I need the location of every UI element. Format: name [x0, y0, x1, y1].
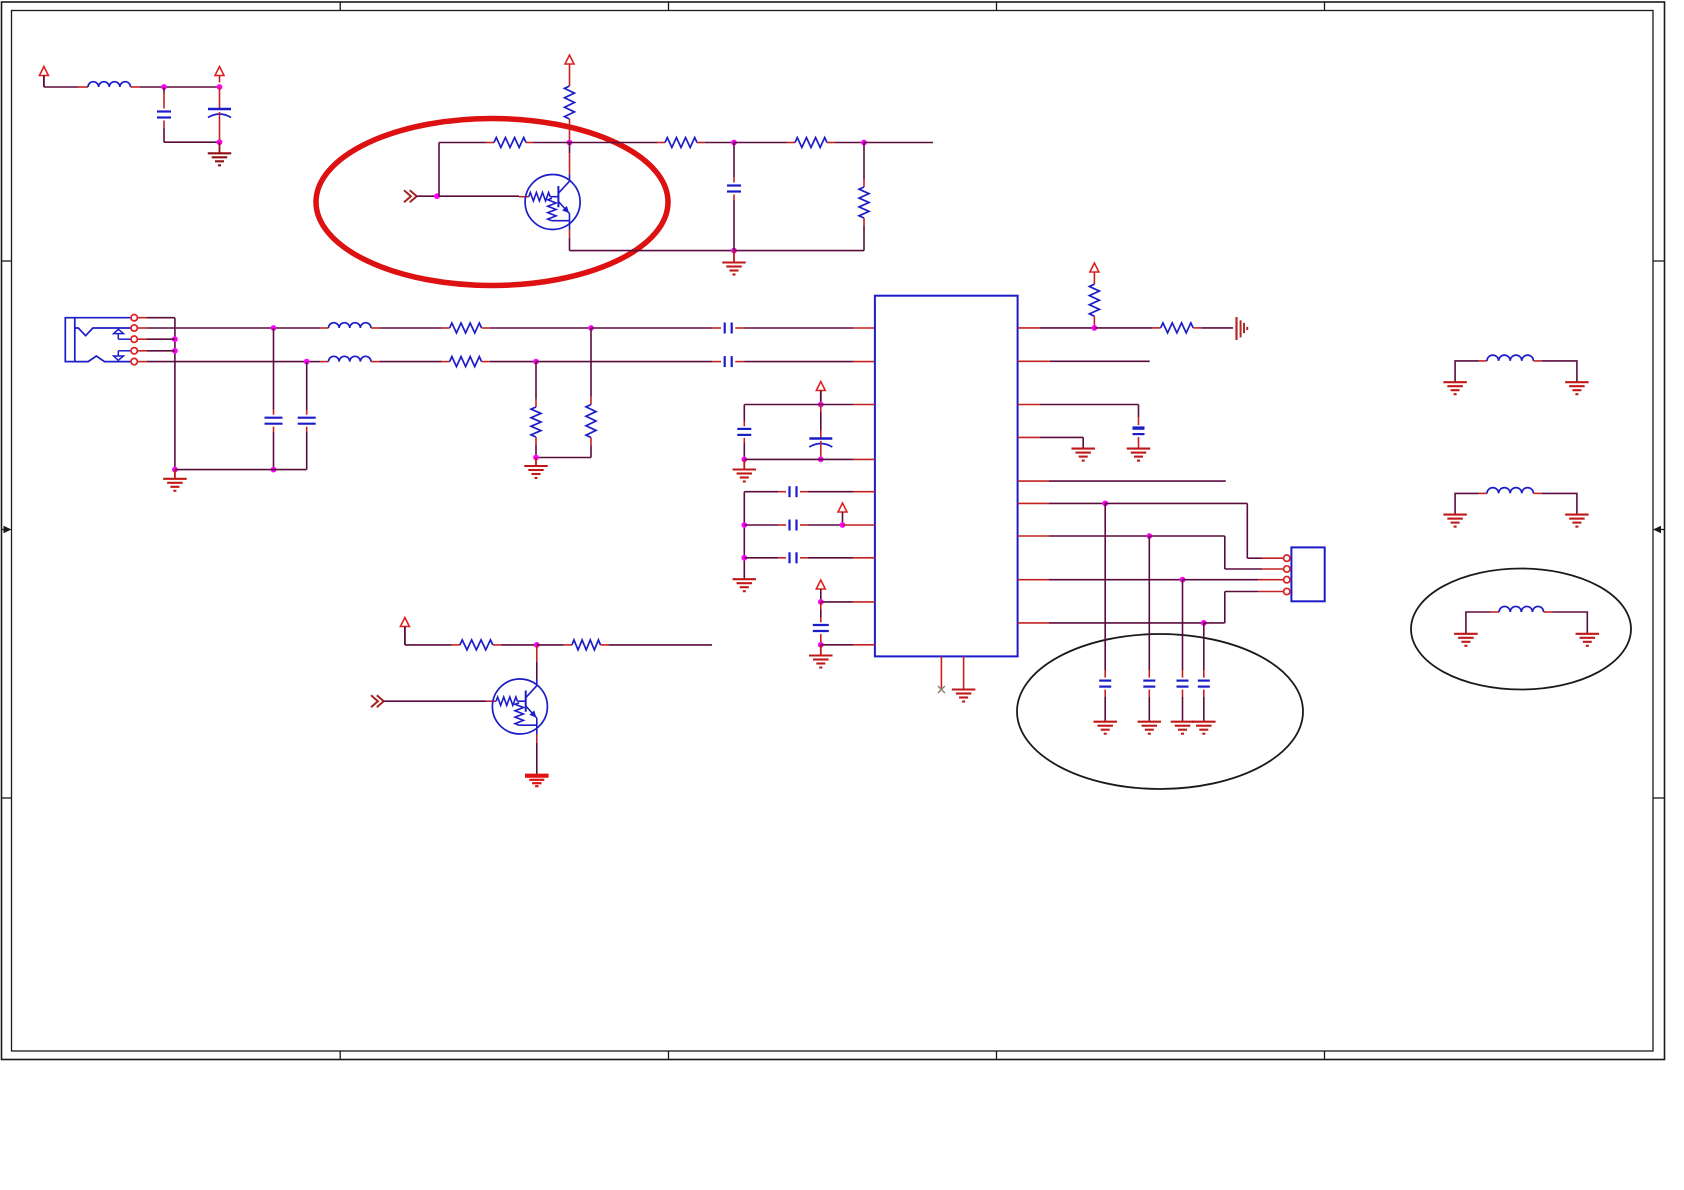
wire	[570, 230, 735, 251]
wire	[744, 458, 821, 460]
node D	[588, 325, 594, 331]
resistor R10	[531, 362, 541, 458]
node	[304, 359, 310, 365]
wire	[569, 143, 571, 175]
node E	[533, 359, 539, 365]
pin 1	[1284, 555, 1290, 561]
ground	[1454, 634, 1478, 646]
capacitor C9	[809, 405, 832, 460]
pin 2	[131, 325, 137, 331]
wire	[744, 557, 786, 559]
node B	[731, 140, 737, 146]
wire	[821, 644, 875, 646]
wire	[44, 86, 88, 88]
wire	[439, 142, 494, 144]
transistor Q1	[525, 175, 580, 230]
pin 1	[131, 315, 137, 321]
ground	[1192, 722, 1216, 734]
ground	[809, 645, 833, 668]
resistor R13	[460, 640, 493, 650]
wire	[1018, 327, 1095, 329]
node	[434, 193, 440, 199]
power flag VIN	[39, 67, 48, 88]
wire	[371, 361, 450, 363]
resistor R4	[795, 138, 827, 148]
port input 2	[371, 695, 384, 707]
highlight ellipse	[1411, 569, 1631, 690]
inductor L3	[329, 356, 372, 361]
capacitor C8	[737, 405, 751, 460]
resistor R1	[565, 86, 575, 119]
node A	[567, 140, 573, 146]
wire	[1018, 437, 1084, 448]
node C	[861, 140, 867, 146]
capacitor C17	[1177, 580, 1189, 722]
wire	[591, 327, 721, 329]
pin 4	[131, 348, 137, 354]
wire	[821, 458, 875, 460]
node G	[1102, 501, 1108, 507]
power flag VCC2	[565, 55, 574, 86]
power flag VCC5	[816, 580, 825, 602]
capacitor C11	[790, 520, 797, 531]
highlight ellipse	[316, 119, 668, 286]
node	[172, 467, 178, 473]
capacitor C15	[1099, 503, 1111, 721]
wire	[1018, 535, 1150, 537]
node H	[1146, 533, 1152, 539]
capacitor C7	[298, 362, 316, 470]
capacitor C4	[725, 323, 732, 334]
wire	[569, 119, 571, 143]
wire	[743, 492, 745, 580]
IC U1	[875, 296, 1018, 657]
node	[172, 336, 178, 342]
power flag VCC1	[215, 67, 224, 83]
ground	[1443, 382, 1467, 394]
capacitor C18	[1198, 623, 1210, 722]
wire	[827, 142, 864, 144]
ground	[952, 656, 976, 701]
resistor R2	[494, 138, 526, 148]
wire	[864, 142, 933, 144]
highlight ellipse	[1017, 634, 1303, 789]
resistor R14	[572, 640, 601, 650]
node K	[534, 642, 540, 648]
wire	[1105, 503, 1283, 558]
wire	[526, 142, 570, 144]
inductor L1	[88, 82, 131, 87]
wire	[1193, 327, 1233, 329]
port input 1	[404, 190, 417, 202]
wire	[1183, 579, 1284, 581]
resistor R7	[450, 323, 482, 333]
wire	[744, 404, 821, 406]
wire	[601, 644, 713, 646]
resistor R5	[859, 143, 869, 251]
wire	[439, 143, 529, 197]
node	[533, 455, 539, 461]
pin 4	[1284, 588, 1290, 594]
wire	[493, 644, 537, 646]
ground	[163, 470, 187, 491]
ground	[1443, 515, 1467, 527]
wire	[536, 361, 721, 363]
wire	[1093, 316, 1095, 328]
node J	[1201, 620, 1207, 626]
node	[818, 402, 824, 408]
ground	[524, 458, 548, 479]
inductor L6	[1466, 606, 1587, 633]
pin 3	[1284, 577, 1290, 583]
capacitor C3	[727, 143, 741, 251]
node	[741, 457, 747, 463]
wire	[131, 86, 220, 88]
capacitor C16	[1143, 536, 1155, 722]
wire	[138, 361, 329, 363]
ground	[1565, 382, 1589, 394]
wire	[536, 645, 538, 679]
wire	[800, 524, 843, 526]
wire	[1094, 327, 1160, 329]
power flag VCC7	[400, 618, 409, 645]
wire	[800, 491, 875, 493]
node	[217, 139, 223, 145]
ground	[733, 579, 757, 591]
node	[172, 348, 178, 354]
wire	[735, 327, 875, 329]
ground	[1171, 722, 1195, 734]
node F	[1092, 325, 1098, 331]
ground	[1093, 722, 1117, 734]
wire	[1018, 405, 1139, 418]
wire	[1018, 360, 1150, 362]
power flag VCC6	[1090, 263, 1099, 284]
resistor R9	[536, 328, 596, 458]
capacitor C2	[208, 87, 231, 142]
node	[741, 555, 747, 561]
resistor R3	[665, 138, 697, 148]
wire	[570, 142, 666, 144]
inductor L5	[1455, 488, 1577, 515]
wire	[537, 644, 572, 646]
wire	[843, 524, 875, 526]
wire	[1204, 592, 1284, 623]
power flag VCC3	[816, 382, 825, 405]
wire	[1018, 579, 1183, 581]
chassis ground	[1237, 317, 1248, 340]
wire	[1018, 480, 1226, 482]
capacitor C1	[157, 112, 171, 118]
node	[731, 248, 737, 254]
resistor R11	[1161, 323, 1194, 333]
ground	[208, 142, 232, 165]
ground	[1138, 722, 1162, 734]
resistor R12	[1089, 284, 1099, 316]
wire	[163, 121, 165, 143]
wire	[163, 87, 165, 109]
node	[818, 642, 824, 648]
connector J1 audio jack	[65, 318, 131, 362]
node	[840, 522, 846, 528]
ground	[525, 776, 549, 787]
capacitor C10	[790, 486, 797, 497]
wire	[417, 195, 438, 197]
wire	[1018, 502, 1106, 504]
wire	[744, 524, 786, 526]
capacitor C14	[1133, 417, 1145, 449]
ground	[1127, 449, 1151, 461]
node	[161, 84, 167, 90]
ground	[733, 459, 757, 481]
ground	[1576, 634, 1600, 646]
wire	[800, 557, 875, 559]
resistor R8	[450, 357, 482, 367]
pin 2	[1284, 566, 1290, 572]
inductor L2	[329, 323, 372, 328]
inductor L4	[1455, 355, 1577, 382]
ground	[1565, 515, 1589, 527]
wire	[735, 361, 875, 363]
wire	[536, 734, 538, 776]
wire	[138, 350, 175, 352]
wire	[734, 142, 795, 144]
wire	[384, 700, 497, 702]
node	[271, 325, 277, 331]
wire	[164, 141, 220, 143]
node I	[1180, 577, 1186, 583]
ground	[722, 251, 746, 275]
wire	[697, 142, 734, 144]
connector J2	[1291, 547, 1324, 601]
capacitor C6	[265, 328, 283, 470]
capacitor C5	[725, 356, 732, 367]
capacitor C13	[813, 602, 829, 645]
node	[741, 522, 747, 528]
node	[818, 599, 824, 605]
wire	[138, 338, 175, 340]
wire	[734, 250, 864, 252]
node	[217, 84, 223, 90]
no-connect	[938, 656, 945, 693]
power flag VCC4	[838, 503, 847, 525]
wire	[482, 361, 536, 363]
wire	[371, 327, 450, 329]
wire	[138, 318, 175, 470]
wire	[1018, 622, 1204, 624]
wire	[482, 327, 591, 329]
pin 3	[131, 336, 137, 342]
wire	[821, 404, 875, 406]
wire	[1149, 536, 1283, 569]
wire	[821, 601, 875, 603]
node	[818, 457, 824, 463]
pin 5	[131, 358, 137, 364]
wire	[175, 469, 307, 471]
capacitor C12	[790, 552, 797, 563]
wire	[744, 491, 786, 493]
node	[271, 467, 277, 473]
ground	[1071, 449, 1095, 461]
wire	[138, 327, 329, 329]
wire	[405, 644, 460, 646]
transistor Q2	[492, 679, 547, 734]
